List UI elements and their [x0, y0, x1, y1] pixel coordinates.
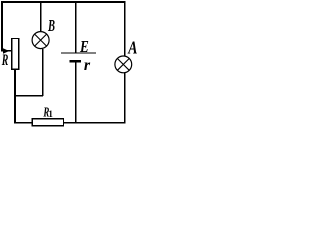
wire below lamp B — [42, 49, 44, 96]
rheostat wiper arrow — [1, 50, 11, 52]
svg-text:E: E — [79, 37, 89, 56]
wire connector (lamp B branch to rheostat branch) — [15, 95, 43, 97]
svg-text:R: R — [1, 52, 8, 69]
svg-text:B: B — [47, 16, 55, 35]
wire above battery — [75, 1, 77, 53]
svg-text:r: r — [84, 57, 91, 74]
resistor R (rheostat box) — [12, 39, 19, 70]
wire top — [1, 1, 125, 3]
wire above lamp B — [40, 1, 42, 31]
battery positive plate (long thin, extends under E) — [61, 52, 96, 54]
svg-text:1: 1 — [48, 109, 53, 119]
lamp B — [32, 32, 49, 49]
wire right border below lamp A — [124, 73, 126, 123]
svg-text:A: A — [127, 37, 137, 57]
resistor R1 (box) — [32, 119, 63, 126]
wire below rheostat — [14, 69, 16, 123]
wire right border above lamp A — [124, 1, 126, 56]
lamp A — [115, 56, 132, 73]
wire below battery — [75, 62, 77, 123]
battery negative plate (short thick) — [70, 60, 82, 63]
wire bottom right segment — [64, 122, 126, 124]
wire left border (top-left corner down to wiper arrow) — [1, 1, 3, 51]
wire bottom left segment — [14, 122, 32, 124]
